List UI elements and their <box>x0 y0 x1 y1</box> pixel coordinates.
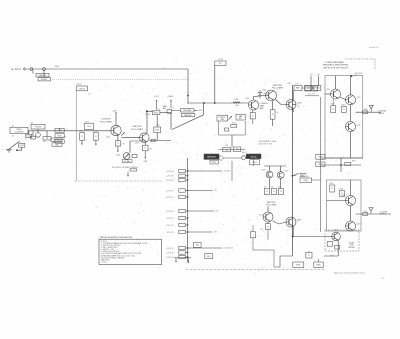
wire q373 emitter to q383 <box>273 221 287 224</box>
wire c101 stub <box>28 131 30 134</box>
wire main vertical bus <box>292 85 294 250</box>
svg-text:THERM: THERM <box>145 114 151 116</box>
svg-text:Q353: Q353 <box>357 224 361 226</box>
resistor R303 <box>311 86 317 91</box>
compensation box stack 2 <box>55 134 64 138</box>
wire c375 up <box>252 225 254 232</box>
probe loop circle <box>36 133 41 138</box>
wire feedback diagonal <box>172 115 204 130</box>
resistor ladder row 12 <box>166 255 188 258</box>
resistor ladder row 10 <box>166 246 188 250</box>
distribution box lower <box>181 113 194 117</box>
svg-text:UNCAL: UNCAL <box>250 155 256 158</box>
resistor R285 <box>314 85 321 90</box>
amplifier box lower <box>327 180 362 231</box>
front panel box UNCAL <box>246 154 261 159</box>
svg-text:-12V 4.7K: -12V 4.7K <box>166 176 174 178</box>
svg-text:R102: R102 <box>20 145 24 147</box>
label q353 designator <box>357 224 361 226</box>
label input ac <box>31 122 34 125</box>
svg-text:2.5K: 2.5K <box>225 145 229 147</box>
resistor ladder row 6 <box>166 209 188 213</box>
svg-text:+12V: +12V <box>154 96 159 98</box>
wire ladder tap row 6 <box>188 211 220 213</box>
label sw row value <box>225 145 229 147</box>
balance box DRIVE BAL <box>217 115 228 121</box>
transistor Q383 driver lower <box>286 217 296 227</box>
potentiometer DC BAL <box>123 153 130 160</box>
svg-text:SW: SW <box>196 245 199 247</box>
transistor Q361 small upper <box>266 171 273 178</box>
label q263 designator <box>262 90 266 92</box>
supply arrow +12V thermal <box>154 96 159 109</box>
resistor R315 <box>331 106 336 113</box>
svg-text:R: R <box>273 191 275 193</box>
wire q323 emitter down <box>350 105 352 122</box>
wire left column vertical <box>320 97 322 232</box>
inductor L240 coil <box>233 99 240 103</box>
svg-text:BAL: BAL <box>55 143 58 146</box>
input coupling box <box>10 127 28 133</box>
label l240 value <box>235 105 239 107</box>
switch box GAIN <box>36 73 49 77</box>
svg-text:COMPLEMENTARY: COMPLEMENTARY <box>325 61 345 64</box>
resistor R363 <box>340 190 345 196</box>
svg-text:8.2K: 8.2K <box>149 149 153 151</box>
svg-text:R: R <box>332 188 334 190</box>
label tp1 value <box>218 59 223 61</box>
potentiometer arrow center <box>229 116 232 119</box>
svg-text:R315: R315 <box>331 104 335 106</box>
svg-text:R141: R141 <box>156 109 160 111</box>
svg-text:(SEE NOTE IN TEXT BELOW): (SEE NOTE IN TEXT BELOW) <box>323 68 348 70</box>
svg-text:R110: R110 <box>58 135 62 137</box>
svg-text:SW 84: SW 84 <box>79 88 84 90</box>
svg-text:C 1: C 1 <box>25 139 28 141</box>
wire q363 top <box>280 166 282 172</box>
label sw84 <box>77 84 82 86</box>
label plus 12 row <box>307 94 316 96</box>
svg-text:Q313: Q313 <box>326 89 330 91</box>
node mid junction <box>340 164 342 166</box>
svg-text:ATT: ATT <box>239 117 242 120</box>
svg-text:R: R <box>117 143 119 145</box>
ground box chassis <box>130 169 137 171</box>
svg-text:X10: X10 <box>63 137 66 139</box>
wire delay driver emitter <box>337 240 339 256</box>
node thermal junction <box>146 110 148 112</box>
svg-text:5-7: 5-7 <box>382 278 385 280</box>
wire q343 collector <box>350 180 352 196</box>
resistor R366 <box>278 188 283 194</box>
decouple box SCALE <box>194 242 202 247</box>
wire dist link <box>194 109 198 111</box>
label gain adj r <box>173 108 175 110</box>
wire q333 down <box>350 132 352 159</box>
label section number <box>369 46 379 49</box>
wire q143 collector <box>146 112 148 132</box>
svg-text:+300V: +300V <box>198 110 204 112</box>
compensation box stack 1 <box>55 128 64 132</box>
svg-text:J2 PIN 3: J2 PIN 3 <box>380 214 387 216</box>
label input dc <box>12 136 15 138</box>
svg-text:SOURCE: SOURCE <box>102 119 112 121</box>
resistor R163 gain <box>167 110 172 114</box>
wire main signal line left <box>28 130 111 132</box>
label q361 value <box>262 170 266 172</box>
wire dashed boundary top <box>345 58 375 60</box>
svg-text:1K: 1K <box>264 186 267 188</box>
gain switch box right <box>233 147 241 151</box>
label EMITTER FOLLOWER center <box>272 85 284 90</box>
resistor R283 <box>305 85 313 90</box>
svg-text:R: R <box>266 191 268 193</box>
label q333 designator <box>357 125 361 127</box>
wire delay stub b <box>318 259 320 262</box>
wire q313 collector up <box>335 76 337 89</box>
label upper feed b <box>317 74 320 76</box>
wire stub to gain switch <box>32 70 34 73</box>
svg-text:R123: R123 <box>93 131 97 133</box>
svg-text:-12V 4.7K: -12V 4.7K <box>166 218 174 220</box>
wire q361 top <box>269 166 271 171</box>
svg-text:+12V: +12V <box>213 190 218 192</box>
arrow chassis down <box>127 172 129 177</box>
label q363 value <box>285 171 289 173</box>
svg-text:-12V 4.7K: -12V 4.7K <box>166 211 174 213</box>
resistor R145 chain <box>142 145 148 151</box>
resistor R231 <box>231 124 237 127</box>
transistor Q133 source follower <box>111 125 121 135</box>
resistor R134 source <box>115 141 120 146</box>
wire tp drop <box>214 65 216 103</box>
wire link down to L <box>273 250 275 267</box>
label to delay line upper <box>378 110 387 115</box>
transistor Q343 lower amp input <box>346 196 356 206</box>
svg-text:470: 470 <box>260 229 263 231</box>
resistor R251 under q253 <box>250 113 255 119</box>
svg-text:-12V: -12V <box>143 161 148 163</box>
wire q273 collector to bus <box>292 91 294 101</box>
svg-text:R259: R259 <box>252 162 256 164</box>
svg-text:R317: R317 <box>341 104 345 106</box>
wire ladder tap row 10 <box>188 247 233 250</box>
svg-text:R: R <box>252 115 254 117</box>
label above input coupling <box>12 124 15 127</box>
svg-text:1K: 1K <box>271 186 274 188</box>
wire dot to r141 <box>148 110 152 112</box>
test point box TP 214 <box>215 61 226 65</box>
input connector J1 <box>23 68 25 71</box>
svg-text:W05: W05 <box>55 66 59 68</box>
wire balance link <box>312 179 321 181</box>
resistor R105 <box>43 137 51 140</box>
svg-text:C371: C371 <box>364 211 368 213</box>
svg-text:DRIVER: DRIVER <box>348 247 355 249</box>
resistor R351 mid <box>345 162 351 165</box>
resistor ladder row 1 <box>166 169 188 173</box>
wire center bus to right section <box>293 104 297 106</box>
svg-text:Section 5-2: Section 5-2 <box>369 46 379 49</box>
svg-text:Q373: Q373 <box>259 215 263 217</box>
svg-text:-12V 4.7K: -12V 4.7K <box>166 257 174 259</box>
wire delay stub a <box>308 251 310 252</box>
svg-text:DC: DC <box>12 136 15 138</box>
svg-text:-12V 4.7K: -12V 4.7K <box>166 180 174 182</box>
label sub r231 <box>232 123 236 125</box>
svg-text:R: R <box>308 255 310 257</box>
resistor R393 cluster <box>306 252 312 258</box>
wire upper feed a <box>310 76 312 86</box>
svg-text:L163: L163 <box>155 130 159 132</box>
svg-text:-12V 4.7K: -12V 4.7K <box>166 190 174 192</box>
node delay feed junction <box>292 236 294 238</box>
svg-text:BAL: BAL <box>221 118 224 121</box>
wire r265 top <box>272 101 274 110</box>
resistor R141 collector <box>152 111 160 115</box>
wire dashed boundary right <box>374 59 376 70</box>
node junction a <box>203 102 205 104</box>
wire q383 down <box>292 226 294 236</box>
wire bottom L link <box>274 256 293 267</box>
wire bottom rail <box>292 250 294 256</box>
ground arrow ladder left <box>175 258 177 263</box>
node AC INPUT label <box>11 68 22 71</box>
wire plus12 row <box>305 95 319 97</box>
label figure caption <box>334 271 366 274</box>
svg-text:+12V -12V: +12V -12V <box>307 94 316 96</box>
svg-text:R395: R395 <box>316 264 320 266</box>
wire q273 emitter down <box>292 109 294 112</box>
resistor R365 <box>271 188 276 194</box>
svg-text:2: 2 <box>67 129 68 131</box>
dashed box delay line driver <box>325 230 359 251</box>
svg-text:2 ONLY: 2 ONLY <box>101 261 108 263</box>
svg-text:R: R <box>81 136 83 138</box>
front panel box VOLTS DIV <box>210 160 218 164</box>
notes text block <box>101 241 148 264</box>
resistor ladder row 11 <box>166 251 188 255</box>
wire delay driver feed <box>293 236 332 238</box>
svg-text:R121: R121 <box>79 131 83 133</box>
label r102 value <box>18 142 21 144</box>
svg-text:Q333: Q333 <box>357 125 361 127</box>
svg-text:FOLLOWER: FOLLOWER <box>272 87 284 89</box>
svg-text:R391: R391 <box>296 264 300 266</box>
resistor R391 cluster <box>293 262 304 267</box>
resistor box below uncal <box>250 160 260 165</box>
wire vertical feed to amplifier <box>187 69 189 103</box>
svg-text:Q323: Q323 <box>357 97 361 99</box>
label q393 designator <box>334 230 338 232</box>
connector circle pin 1 <box>30 68 33 71</box>
svg-text:+12.5V AT J3: +12.5V AT J3 <box>224 247 234 250</box>
label r265 value <box>276 112 279 114</box>
label q273 value <box>297 106 300 108</box>
transistor Q273 driver <box>286 100 296 110</box>
label q133 designator <box>106 137 110 139</box>
label r121 value <box>79 131 83 133</box>
resistor ladder row 2 <box>166 174 188 178</box>
wire center drop to ladder zone <box>231 161 233 181</box>
capacitor C232 <box>225 128 229 131</box>
label box DC BAL <box>122 160 132 163</box>
transistor Q253 common base <box>249 100 259 110</box>
wire ladder ground bar <box>174 257 191 259</box>
ground symbol input <box>6 150 12 153</box>
svg-text:+12V: +12V <box>112 111 117 113</box>
svg-text:4.7K: 4.7K <box>295 83 299 85</box>
label EMITTER FOLLOWER left <box>131 126 143 131</box>
label r365 value <box>271 186 274 188</box>
diode CR255 zener <box>258 90 263 99</box>
terminal triangle upper output <box>369 105 373 112</box>
wire q363 bottom <box>280 178 282 188</box>
svg-text:Q343: Q343 <box>341 195 345 197</box>
wire q313 feed <box>325 93 331 95</box>
capacitor C101 <box>26 134 32 137</box>
attenuator balance box <box>52 143 62 147</box>
label q373 designator <box>259 215 263 217</box>
label output cap <box>364 109 368 111</box>
label r375 value <box>260 229 263 231</box>
label page number <box>382 278 385 280</box>
wire q361 bottom <box>269 178 271 189</box>
label r361 value <box>330 183 334 185</box>
label r363 value <box>339 188 343 190</box>
transistor Q143 emitter follower <box>140 133 150 143</box>
wire ladder tap row 1 <box>188 171 232 173</box>
supply arrow +12V q133 <box>112 111 117 115</box>
transistor Q263 emitter follower <box>266 90 277 101</box>
label reference designators title <box>100 236 134 239</box>
balance box VAR ATTEN <box>236 114 245 120</box>
wire stack drop <box>59 128 61 130</box>
resistor R331 column <box>316 155 325 160</box>
svg-text:-12V: -12V <box>317 74 320 76</box>
wire gain adj vertical <box>170 113 172 130</box>
svg-text:R335: R335 <box>304 180 308 182</box>
label q143 designator <box>135 143 139 145</box>
svg-text:PARTIAL REFERENCE DESIGNATIONS: PARTIAL REFERENCE DESIGNATIONS <box>100 236 134 239</box>
svg-text:VARIABLE: VARIABLE <box>207 156 217 159</box>
label driver balance <box>300 174 309 178</box>
wire mid rail <box>321 164 361 166</box>
resistor ladder row 8 <box>166 223 188 227</box>
wire q313 to q323 <box>340 97 346 100</box>
wire q253 base down <box>252 110 254 113</box>
svg-text:R: R <box>280 191 282 193</box>
label line w163 <box>151 111 155 113</box>
resistor R317 <box>342 106 347 112</box>
wire q143 down <box>144 142 146 145</box>
wire chassis boundary horizontal <box>74 180 162 182</box>
wire mid vertical <box>340 158 342 172</box>
wire main line center <box>187 102 249 104</box>
transistor Q333 lower of upper pair <box>346 122 356 132</box>
svg-text:L240: L240 <box>235 99 239 101</box>
test point box TP volts-div <box>77 86 88 91</box>
wire dotted control line <box>51 79 189 81</box>
svg-text:-12V 4.7K: -12V 4.7K <box>166 252 174 254</box>
label EMITTER FOLLOWER lower <box>266 202 277 206</box>
label r141 value <box>156 109 160 111</box>
svg-text:R: R <box>343 109 345 111</box>
svg-text:C120: C120 <box>87 126 91 128</box>
svg-text:.001: .001 <box>43 141 46 143</box>
coupling capacitor box above line <box>84 123 93 129</box>
wire r102 drop <box>21 147 23 150</box>
svg-text:+75V: +75V <box>309 74 313 76</box>
label lower output voltage <box>380 210 388 215</box>
label W05 cable <box>55 66 59 68</box>
wire chassis dash bottom <box>186 269 324 271</box>
wire ladder tap row 4 <box>188 190 218 192</box>
ground arrow ladder right <box>188 258 190 263</box>
label SOURCE FOLLOWER <box>100 119 112 124</box>
svg-text:GAIN SW: GAIN SW <box>39 74 47 77</box>
capacitor C375 chain <box>250 232 255 238</box>
supply arrow +300V right <box>167 96 173 108</box>
wire variable link <box>224 157 242 159</box>
label r134 value <box>122 144 126 146</box>
inductor L163 box <box>154 127 161 133</box>
wire c375 down <box>252 238 254 250</box>
wire switch row <box>219 148 245 150</box>
label upper feed a <box>309 74 313 76</box>
svg-text:150: 150 <box>297 106 300 108</box>
svg-text:R111: R111 <box>58 141 62 143</box>
connector circle pin 2 <box>43 68 46 71</box>
node junction b <box>214 102 216 104</box>
front panel box VARIABLE <box>204 154 219 159</box>
svg-text:CALIBRATED GAIN: CALIBRATED GAIN <box>259 140 277 143</box>
svg-text:SEL 2: SEL 2 <box>354 75 358 77</box>
node line driver tap <box>350 75 352 77</box>
svg-text:R: R <box>145 148 147 150</box>
supply arrow -12V q133 <box>116 146 121 157</box>
svg-text:1M: 1M <box>46 138 49 140</box>
label q323 designator <box>357 97 361 99</box>
wire q133 source <box>117 136 119 141</box>
label zener value <box>263 94 268 96</box>
transistor Q353 lower amp output <box>346 221 356 231</box>
node junction lower left <box>16 149 18 151</box>
label mounted on chassis <box>112 166 139 169</box>
svg-text:-12V 4.7K: -12V 4.7K <box>166 248 174 250</box>
svg-text:-12V: -12V <box>215 211 219 213</box>
label coil value <box>156 125 160 127</box>
resistor R301 <box>305 86 311 91</box>
label bus top <box>287 83 292 85</box>
arrow set dc level <box>294 173 306 177</box>
svg-text:-12V 4.7K: -12V 4.7K <box>166 197 174 199</box>
svg-text:R: R <box>267 226 269 228</box>
wire upper feed b <box>318 76 320 86</box>
svg-text:R: R <box>95 136 97 138</box>
wire stub to invert switch <box>43 70 45 77</box>
resistor R361 <box>330 185 335 192</box>
attenuator box A1 <box>51 138 62 141</box>
svg-text:ADJ: ADJ <box>163 107 166 110</box>
transistor Q313 upper amp input <box>331 89 341 99</box>
capacitor C393 in delay box <box>327 242 332 247</box>
svg-text:R361: R361 <box>330 183 334 185</box>
node bus set junction <box>292 175 294 177</box>
wire r105 stub <box>46 131 48 137</box>
wire var drop <box>231 135 233 147</box>
svg-text:-12V: -12V <box>116 155 121 157</box>
